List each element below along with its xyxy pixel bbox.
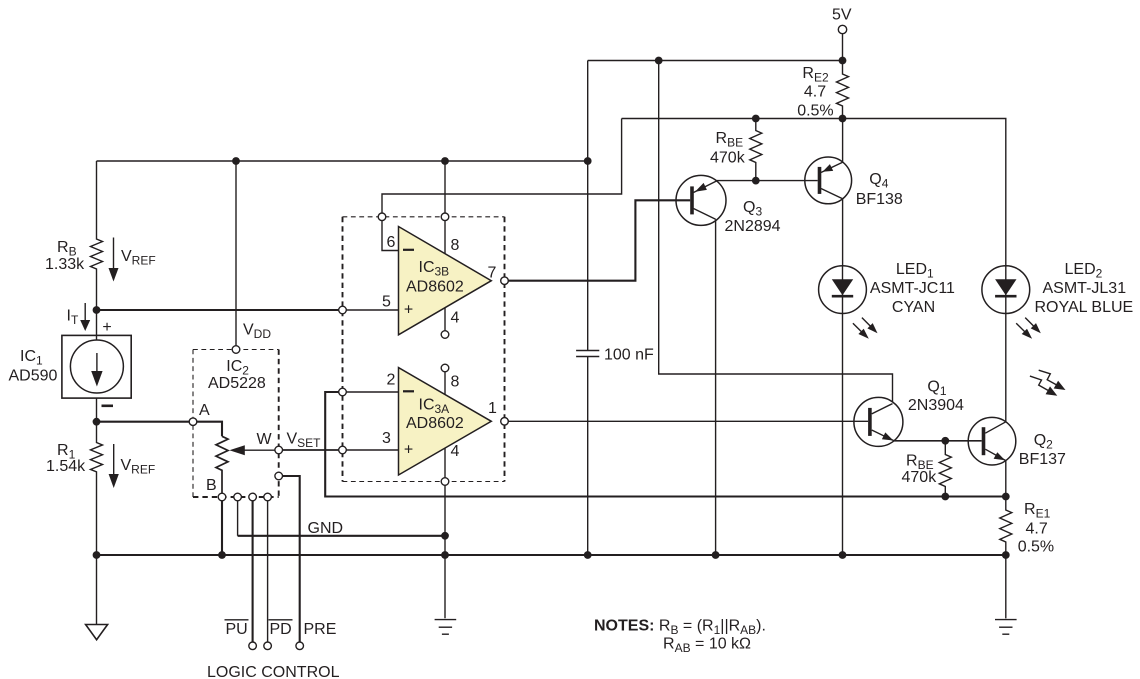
svg-text:2: 2 <box>387 372 396 389</box>
node Q1 collector rail junction <box>655 57 663 65</box>
wire pin6 net to RE2 node <box>382 119 622 214</box>
svg-text:+: + <box>404 302 413 319</box>
wire VSET W to pin3 <box>282 449 339 451</box>
node Q2 emitter sense junction <box>1002 493 1010 501</box>
svg-text:1.54k: 1.54k <box>46 458 86 475</box>
node RE2 bottom junction <box>839 115 847 123</box>
pin 3 terminal <box>339 446 347 454</box>
svg-text:ASMT-JL31: ASMT-JL31 <box>1043 280 1127 297</box>
power 5V terminal <box>838 25 846 60</box>
wire GND terminal drop <box>237 501 239 536</box>
svg-text:4: 4 <box>451 443 460 460</box>
resistor RBE (upper) <box>750 119 762 181</box>
wire pin8 of IC3B to VDD rail <box>444 161 446 213</box>
pin 4 terminal IC3B <box>441 331 449 339</box>
current source IC1 AD590 <box>62 335 131 398</box>
svg-text:AD8602: AD8602 <box>406 279 464 296</box>
svg-text:BF137: BF137 <box>1019 451 1066 468</box>
pin PD terminal IC2 <box>264 493 272 501</box>
node bus-left junction <box>93 551 101 559</box>
wire RE1 to right ground <box>1005 555 1007 618</box>
svg-text:AD590: AD590 <box>9 368 58 385</box>
node Q3 emitter junction <box>752 177 760 185</box>
transistor Q3 2N2894 <box>676 175 726 225</box>
svg-text:VSET: VSET <box>287 431 322 451</box>
LED2 symbol <box>982 266 1030 314</box>
wire pin2 input stub <box>346 391 398 393</box>
svg-text:VDD: VDD <box>243 322 271 342</box>
resistor RE2 <box>837 61 849 119</box>
label minus input IC3B <box>403 249 414 251</box>
wire VDD rail y=161 <box>97 160 588 162</box>
svg-text:B: B <box>206 477 217 494</box>
node IC1 bottom junction <box>93 418 101 426</box>
wire pin7 output to Q3 base <box>508 200 690 280</box>
pin PD logic terminal <box>264 642 272 650</box>
wire top rail y=60.5 <box>588 60 843 62</box>
ground middle (earth bars) <box>435 620 457 635</box>
pin 5 terminal <box>339 306 347 314</box>
wire Q4 collector to LED1 <box>842 199 844 266</box>
node 5V rail junction <box>839 57 847 65</box>
svg-text:7: 7 <box>488 265 497 282</box>
svg-text:4: 4 <box>451 310 460 327</box>
wire Q2 emitter to sense node <box>1005 461 1007 497</box>
wire Q3 emitter to Q4 base <box>716 180 817 182</box>
resistor R1 <box>91 422 103 555</box>
pin W terminal IC2 <box>275 446 283 454</box>
svg-text:6: 6 <box>387 234 396 251</box>
wire Q4 emitter to sense rail <box>842 119 844 163</box>
node capacitor bus junction <box>584 551 592 559</box>
wire pin8 stub IC3B <box>444 220 446 254</box>
digital pot IC2 AD5228 dashed box <box>193 350 279 498</box>
svg-text:Q1: Q1 <box>927 379 946 399</box>
svg-text:LED1: LED1 <box>896 261 934 281</box>
svg-text:1: 1 <box>488 400 497 417</box>
node RBE lower top junction <box>941 437 949 445</box>
svg-text:470k: 470k <box>902 469 938 486</box>
pin GND terminal IC2 <box>234 493 242 501</box>
wire A to potentiometer top <box>197 422 222 437</box>
transistor Q4 BF138 <box>805 157 852 204</box>
resistor RE1 <box>1000 497 1012 556</box>
svg-text:ROYAL BLUE: ROYAL BLUE <box>1035 299 1134 316</box>
node Q3 collector bus junction <box>712 551 720 559</box>
pin 8 terminal IC3A <box>441 364 449 372</box>
svg-text:PRE: PRE <box>304 621 337 638</box>
arrow VREF (RB) <box>109 238 119 282</box>
wire LED1 cathode to bus <box>842 314 844 556</box>
transistor Q2 BF137 <box>968 417 1016 465</box>
pin 2 terminal <box>339 388 347 396</box>
svg-text:RBE: RBE <box>716 130 744 150</box>
svg-text:GND: GND <box>308 520 344 537</box>
svg-text:VREF: VREF <box>121 248 156 268</box>
svg-text:VREF: VREF <box>121 457 156 477</box>
wire ground bus <box>97 554 1006 556</box>
node pin4 bus junction <box>441 551 449 559</box>
op-amp IC3A triangle <box>399 368 492 475</box>
wire Q3 collector drop <box>715 219 717 555</box>
wire pin5 net from IT node <box>97 309 339 311</box>
pin 7 terminal <box>501 277 509 285</box>
arrow VREF (R1) <box>109 444 119 488</box>
svg-text:8: 8 <box>451 237 460 254</box>
wire PU line <box>252 501 254 643</box>
LED1 symbol <box>819 266 867 314</box>
pin VDD terminal IC2 <box>232 346 240 354</box>
pin PRE logic terminal <box>296 642 304 650</box>
svg-text:2N2894: 2N2894 <box>725 218 781 235</box>
svg-text:4.7: 4.7 <box>1026 521 1048 538</box>
wire PD line <box>267 501 269 643</box>
svg-text:AD8602: AD8602 <box>406 415 464 432</box>
label PD (with overline) <box>269 620 293 638</box>
svg-text:LED2: LED2 <box>1065 261 1103 281</box>
pin 4 terminal IC3A <box>441 478 449 486</box>
wire pin4 ground drop <box>444 485 446 618</box>
svg-text:8: 8 <box>451 374 460 391</box>
label minus input IC3A <box>403 390 414 392</box>
node B bus junction <box>218 551 226 559</box>
svg-text:+: + <box>404 442 413 459</box>
pin A terminal IC2 <box>189 418 197 426</box>
pin PRE terminal IC2 <box>275 472 283 480</box>
svg-text:PU: PU <box>226 621 248 638</box>
node GND net junction <box>441 532 449 540</box>
svg-text:CYAN: CYAN <box>892 299 935 316</box>
svg-text:LOGIC CONTROL: LOGIC CONTROL <box>207 664 340 679</box>
ground left (triangle) <box>86 555 108 640</box>
pin 8 terminal IC3B <box>441 213 449 221</box>
svg-text:IC1: IC1 <box>20 348 43 368</box>
pin PU logic terminal <box>249 642 257 650</box>
pin 1 terminal <box>501 418 509 426</box>
svg-text:IT: IT <box>67 308 79 328</box>
svg-text:PD: PD <box>270 621 292 638</box>
wire 5V feed vertical x=587.7 <box>587 61 589 351</box>
wire sense rail y=118.5 <box>622 119 1006 266</box>
op-amp IC3B triangle <box>399 227 492 335</box>
light arrows LED2 <box>1016 318 1041 339</box>
pin B terminal IC2 <box>218 493 226 501</box>
wire feedback net pin2 to RE1 sense <box>325 392 1006 497</box>
wire pin4 stub IC3B <box>444 308 446 331</box>
svg-text:100 nF: 100 nF <box>604 347 654 364</box>
svg-text:Q3: Q3 <box>743 199 762 219</box>
pin 6 terminal <box>378 213 386 221</box>
svg-text:Q4: Q4 <box>869 171 888 191</box>
node RBE lower bottom junction <box>941 493 949 501</box>
wire LED2 cathode to Q2 collector <box>1005 314 1007 422</box>
svg-text:NOTES: RB = (R1||RAB).: NOTES: RB = (R1||RAB). <box>594 618 766 638</box>
wire RB bottom to IC1 <box>96 310 98 340</box>
svg-text:RAB = 10 kΩ: RAB = 10 kΩ <box>663 636 751 656</box>
svg-text:2N3904: 2N3904 <box>908 397 964 414</box>
svg-text:W: W <box>257 431 273 448</box>
light bolt arrows LED2 <box>1030 370 1066 396</box>
svg-text:3: 3 <box>382 430 391 447</box>
node IT junction <box>93 306 101 314</box>
wire Q1 emitter to Q2 base <box>894 440 982 442</box>
arrow IT <box>80 303 90 331</box>
node RE1 bus junction <box>1002 551 1010 559</box>
resistor RB <box>91 161 103 310</box>
svg-text:1.33k: 1.33k <box>45 256 85 273</box>
wire pin5 input stub <box>346 309 398 311</box>
light arrows LED1 <box>853 318 878 339</box>
svg-text:AD5228: AD5228 <box>208 375 266 392</box>
label minus sign IC1 <box>102 405 114 408</box>
svg-text:5V: 5V <box>832 7 852 24</box>
transistor Q1 2N3904 <box>854 397 903 446</box>
node pin8 rail junction <box>441 157 449 165</box>
wire B terminal to ground bus <box>221 501 223 555</box>
svg-text:A: A <box>199 402 210 419</box>
svg-text:0.5%: 0.5% <box>1018 539 1054 556</box>
wire IC1 to node A <box>96 398 98 422</box>
wire pin3 input stub <box>346 449 398 451</box>
potentiometer element of IC2 <box>216 436 228 493</box>
wire pin1 output to Q1 base <box>508 420 868 422</box>
pin PU terminal IC2 <box>249 493 257 501</box>
wire VDD drop to IC2 <box>235 161 237 346</box>
wire PRE line <box>282 476 299 642</box>
wire node A to IC2 <box>97 421 190 423</box>
svg-text:ASMT-JC11: ASMT-JC11 <box>870 280 955 297</box>
node VDD rail junction <box>232 157 240 165</box>
wire Q1 collector net <box>659 61 893 402</box>
svg-text:BF138: BF138 <box>856 191 903 208</box>
svg-text:470k: 470k <box>710 149 746 166</box>
capacitor 100 nF <box>576 351 599 357</box>
wire GND net <box>238 535 445 537</box>
svg-text:+: + <box>102 319 111 336</box>
ground right (earth bars) <box>995 620 1017 635</box>
svg-text:0.5%: 0.5% <box>797 102 833 119</box>
node LED1 bus junction <box>839 551 847 559</box>
svg-text:5: 5 <box>382 294 391 311</box>
svg-text:RE1: RE1 <box>1024 501 1051 521</box>
svg-text:RE2: RE2 <box>802 65 829 85</box>
node RBE top junction <box>752 115 760 123</box>
svg-text:4.7: 4.7 <box>804 84 826 101</box>
wiper arrow of IC2 <box>229 445 275 455</box>
label PU (with overline) <box>225 620 249 638</box>
wire pin8 stub IC3A <box>444 372 446 395</box>
node VDD rail right junction <box>584 157 592 165</box>
wire pin4 stub IC3A <box>444 448 446 478</box>
op-amp IC3 dashed box <box>343 217 505 482</box>
wire pin6 input stub <box>382 220 399 250</box>
resistor RBE (lower) <box>939 441 951 497</box>
svg-text:Q2: Q2 <box>1034 432 1053 452</box>
wire capacitor to bus <box>587 357 589 556</box>
